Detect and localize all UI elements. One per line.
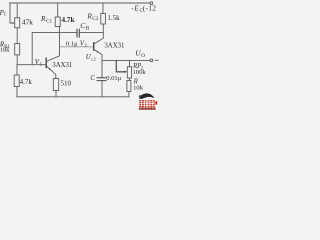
svg-text:O: O [141, 53, 145, 59]
svg-text:4.7k: 4.7k [62, 16, 75, 24]
svg-text:C2: C2 [92, 16, 98, 22]
svg-text:3AX31: 3AX31 [52, 62, 72, 69]
svg-text:0.01μ: 0.01μ [106, 75, 122, 82]
svg-text:C: C [90, 74, 95, 82]
svg-text:c2: c2 [91, 57, 96, 62]
svg-text:510: 510 [61, 79, 72, 87]
svg-text:3AX31: 3AX31 [104, 42, 124, 49]
svg-text:47k: 47k [22, 18, 33, 27]
svg-text:10k: 10k [133, 85, 144, 92]
svg-text:1.5k: 1.5k [107, 14, 120, 22]
svg-text:B: B [86, 26, 90, 32]
svg-text:(-12: (-12 [143, 4, 157, 12]
svg-text:4.7k: 4.7k [20, 78, 33, 86]
svg-text:100k: 100k [133, 69, 147, 76]
svg-text:E: E [133, 4, 139, 12]
svg-text:C1: C1 [46, 19, 52, 25]
svg-text:0.1μ: 0.1μ [66, 40, 78, 47]
svg-text:18k: 18k [0, 47, 10, 54]
